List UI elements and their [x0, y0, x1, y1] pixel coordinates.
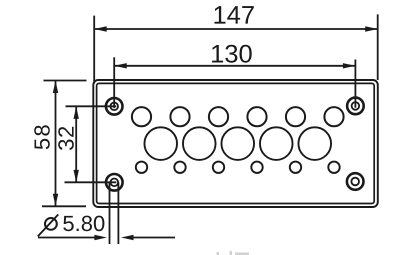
dimension 58 top extension line	[44, 80, 87, 82]
mounting hole bottom-right inner	[351, 178, 359, 186]
dimension 147 line	[94, 28, 378, 30]
faint cropped watermark text at bottom	[217, 251, 250, 255]
dimension 32 bottom arrowhead	[74, 170, 79, 183]
cable hole middle row 1	[144, 127, 177, 160]
cable hole middle row 5	[298, 127, 331, 160]
dimension 58 bottom arrowhead	[53, 194, 58, 207]
cable hole middle row 3	[221, 127, 254, 160]
diameter leader left line	[38, 237, 95, 239]
dimension 147 label	[215, 6, 254, 24]
cable hole bottom row 6	[328, 162, 339, 173]
diameter 5.80 label	[63, 216, 104, 232]
cable hole bottom row 5	[290, 162, 301, 173]
mounting hole top-left inner	[110, 103, 118, 111]
dimension 32 bottom extension line	[65, 181, 117, 183]
hole tangent line right	[117, 182, 119, 244]
cable hole middle row 4	[260, 127, 293, 160]
cable hole top row 6	[324, 107, 343, 126]
dimension 32 label (rotated)	[58, 127, 74, 150]
mounting hole bottom-left outer	[106, 174, 123, 191]
dimension 130 left arrowhead	[114, 63, 127, 68]
cable hole bottom row 1	[136, 162, 147, 173]
dimension 58 label (rotated)	[34, 125, 50, 149]
dimension 130 line	[114, 65, 355, 67]
cable hole top row 4	[247, 107, 266, 126]
plate inner outline	[97, 83, 375, 203]
diameter symbol circle	[45, 218, 57, 230]
plate outer outline	[93, 80, 378, 207]
cable hole middle row 2	[183, 127, 216, 160]
dimension 147 left extension line	[93, 16, 95, 84]
diameter symbol slash	[38, 215, 58, 237]
dimension 130 right extension line	[354, 60, 356, 108]
mounting hole bottom-right outer	[347, 173, 364, 190]
cable hole top row 3	[209, 107, 228, 126]
hole tangent line left	[109, 182, 111, 244]
dimension 58 top arrowhead	[53, 81, 58, 94]
dimension 147 right extension line	[377, 14, 379, 80]
dimension 32 top extension line	[66, 105, 117, 107]
dimension 147 right arrowhead	[365, 26, 378, 31]
mounting hole top-right inner	[352, 102, 360, 110]
dimension 58 bottom extension line	[42, 205, 86, 207]
cable hole top row 2	[170, 107, 189, 126]
dimension 32 top arrowhead	[74, 106, 79, 119]
diameter leader right line	[134, 237, 176, 239]
dimension 130 left extension line	[113, 57, 115, 108]
dimension 130 label	[212, 45, 252, 63]
cable hole bottom row 3	[213, 162, 224, 173]
diameter leader left arrowhead	[94, 235, 107, 240]
cable hole top row 1	[132, 107, 151, 126]
cable hole bottom row 4	[251, 162, 262, 173]
dimension 58 line	[55, 81, 57, 207]
mounting hole top-right outer	[347, 98, 364, 115]
cable hole bottom row 2	[174, 162, 185, 173]
dimension 130 right arrowhead	[343, 63, 356, 68]
dimension 32 line	[75, 106, 77, 182]
mounting hole bottom-left inner	[111, 179, 119, 187]
diameter leader right arrowhead	[121, 235, 134, 240]
dimension 147 left arrowhead	[94, 26, 107, 31]
cable hole top row 5	[286, 107, 305, 126]
mounting hole top-left outer	[106, 98, 123, 115]
